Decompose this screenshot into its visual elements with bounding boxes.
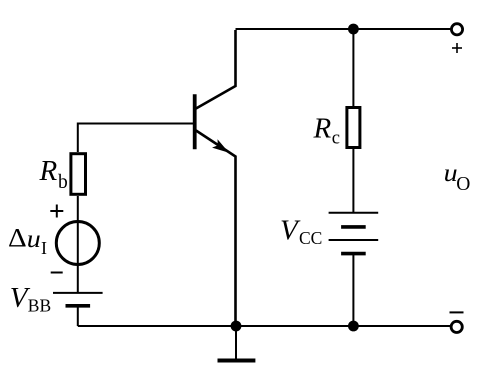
svg-text:BB: BB (28, 296, 51, 316)
svg-text:O: O (456, 174, 470, 195)
svg-text:b: b (58, 172, 68, 193)
svg-text:I: I (41, 238, 47, 258)
svg-text:V: V (280, 215, 301, 247)
svg-text:c: c (332, 129, 340, 149)
svg-text:Δ: Δ (8, 223, 27, 252)
svg-text:R: R (313, 112, 332, 144)
svg-text:u: u (27, 224, 41, 252)
svg-text:CC: CC (299, 228, 322, 248)
svg-text:R: R (39, 155, 58, 187)
